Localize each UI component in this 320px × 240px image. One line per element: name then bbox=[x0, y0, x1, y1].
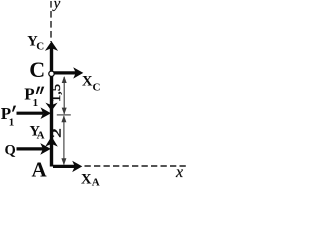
svg-text:A: A bbox=[32, 158, 48, 182]
label Q bbox=[5, 143, 16, 159]
svg-text:C: C bbox=[93, 82, 101, 94]
y-axis dashed line bbox=[50, 1, 52, 42]
dimension label 2 bbox=[48, 128, 63, 138]
force Y_A up arrowhead on bar bbox=[45, 136, 58, 146]
label Y_C bbox=[27, 34, 44, 53]
label P''1 bbox=[24, 85, 44, 110]
dimension line 1.5 (C to P) bbox=[62, 76, 67, 115]
pivot circle at C bbox=[49, 71, 54, 76]
point label C bbox=[29, 57, 45, 82]
label X_C bbox=[82, 74, 101, 94]
dimension tick at P bbox=[57, 114, 71, 116]
label P'1 bbox=[1, 104, 16, 129]
svg-text:Q: Q bbox=[5, 143, 16, 159]
x-axis dashed line bbox=[85, 165, 187, 167]
x-axis label x bbox=[175, 164, 183, 181]
dimension line 2 (P to A) bbox=[61, 115, 66, 165]
label X_A bbox=[81, 171, 100, 188]
svg-text:1: 1 bbox=[33, 97, 39, 109]
force X_A arrow bbox=[53, 161, 82, 172]
force Y_C arrowhead bbox=[45, 41, 58, 51]
svg-text:1,5: 1,5 bbox=[49, 84, 63, 102]
label Y_A bbox=[30, 124, 45, 142]
svg-text:A: A bbox=[37, 130, 45, 142]
svg-text:C: C bbox=[29, 57, 45, 82]
svg-text:C: C bbox=[36, 41, 44, 53]
force P'1 arrow bbox=[17, 107, 52, 119]
y-axis label y bbox=[52, 0, 61, 12]
svg-text:X: X bbox=[82, 74, 93, 90]
point label A bbox=[32, 158, 48, 182]
svg-text:A: A bbox=[92, 177, 100, 189]
svg-text:2: 2 bbox=[48, 128, 63, 138]
dimension label 1,5 bbox=[49, 84, 63, 102]
force Q arrow bbox=[17, 143, 51, 155]
svg-text:y: y bbox=[52, 0, 61, 12]
force P''1 down arrowhead on bar bbox=[45, 103, 57, 111]
svg-text:1: 1 bbox=[9, 117, 15, 129]
force X_C arrow bbox=[53, 67, 83, 78]
svg-text:x: x bbox=[175, 164, 183, 181]
svg-text:X: X bbox=[81, 171, 92, 187]
bar AC (column) with Y_C shaft bbox=[50, 47, 53, 167]
